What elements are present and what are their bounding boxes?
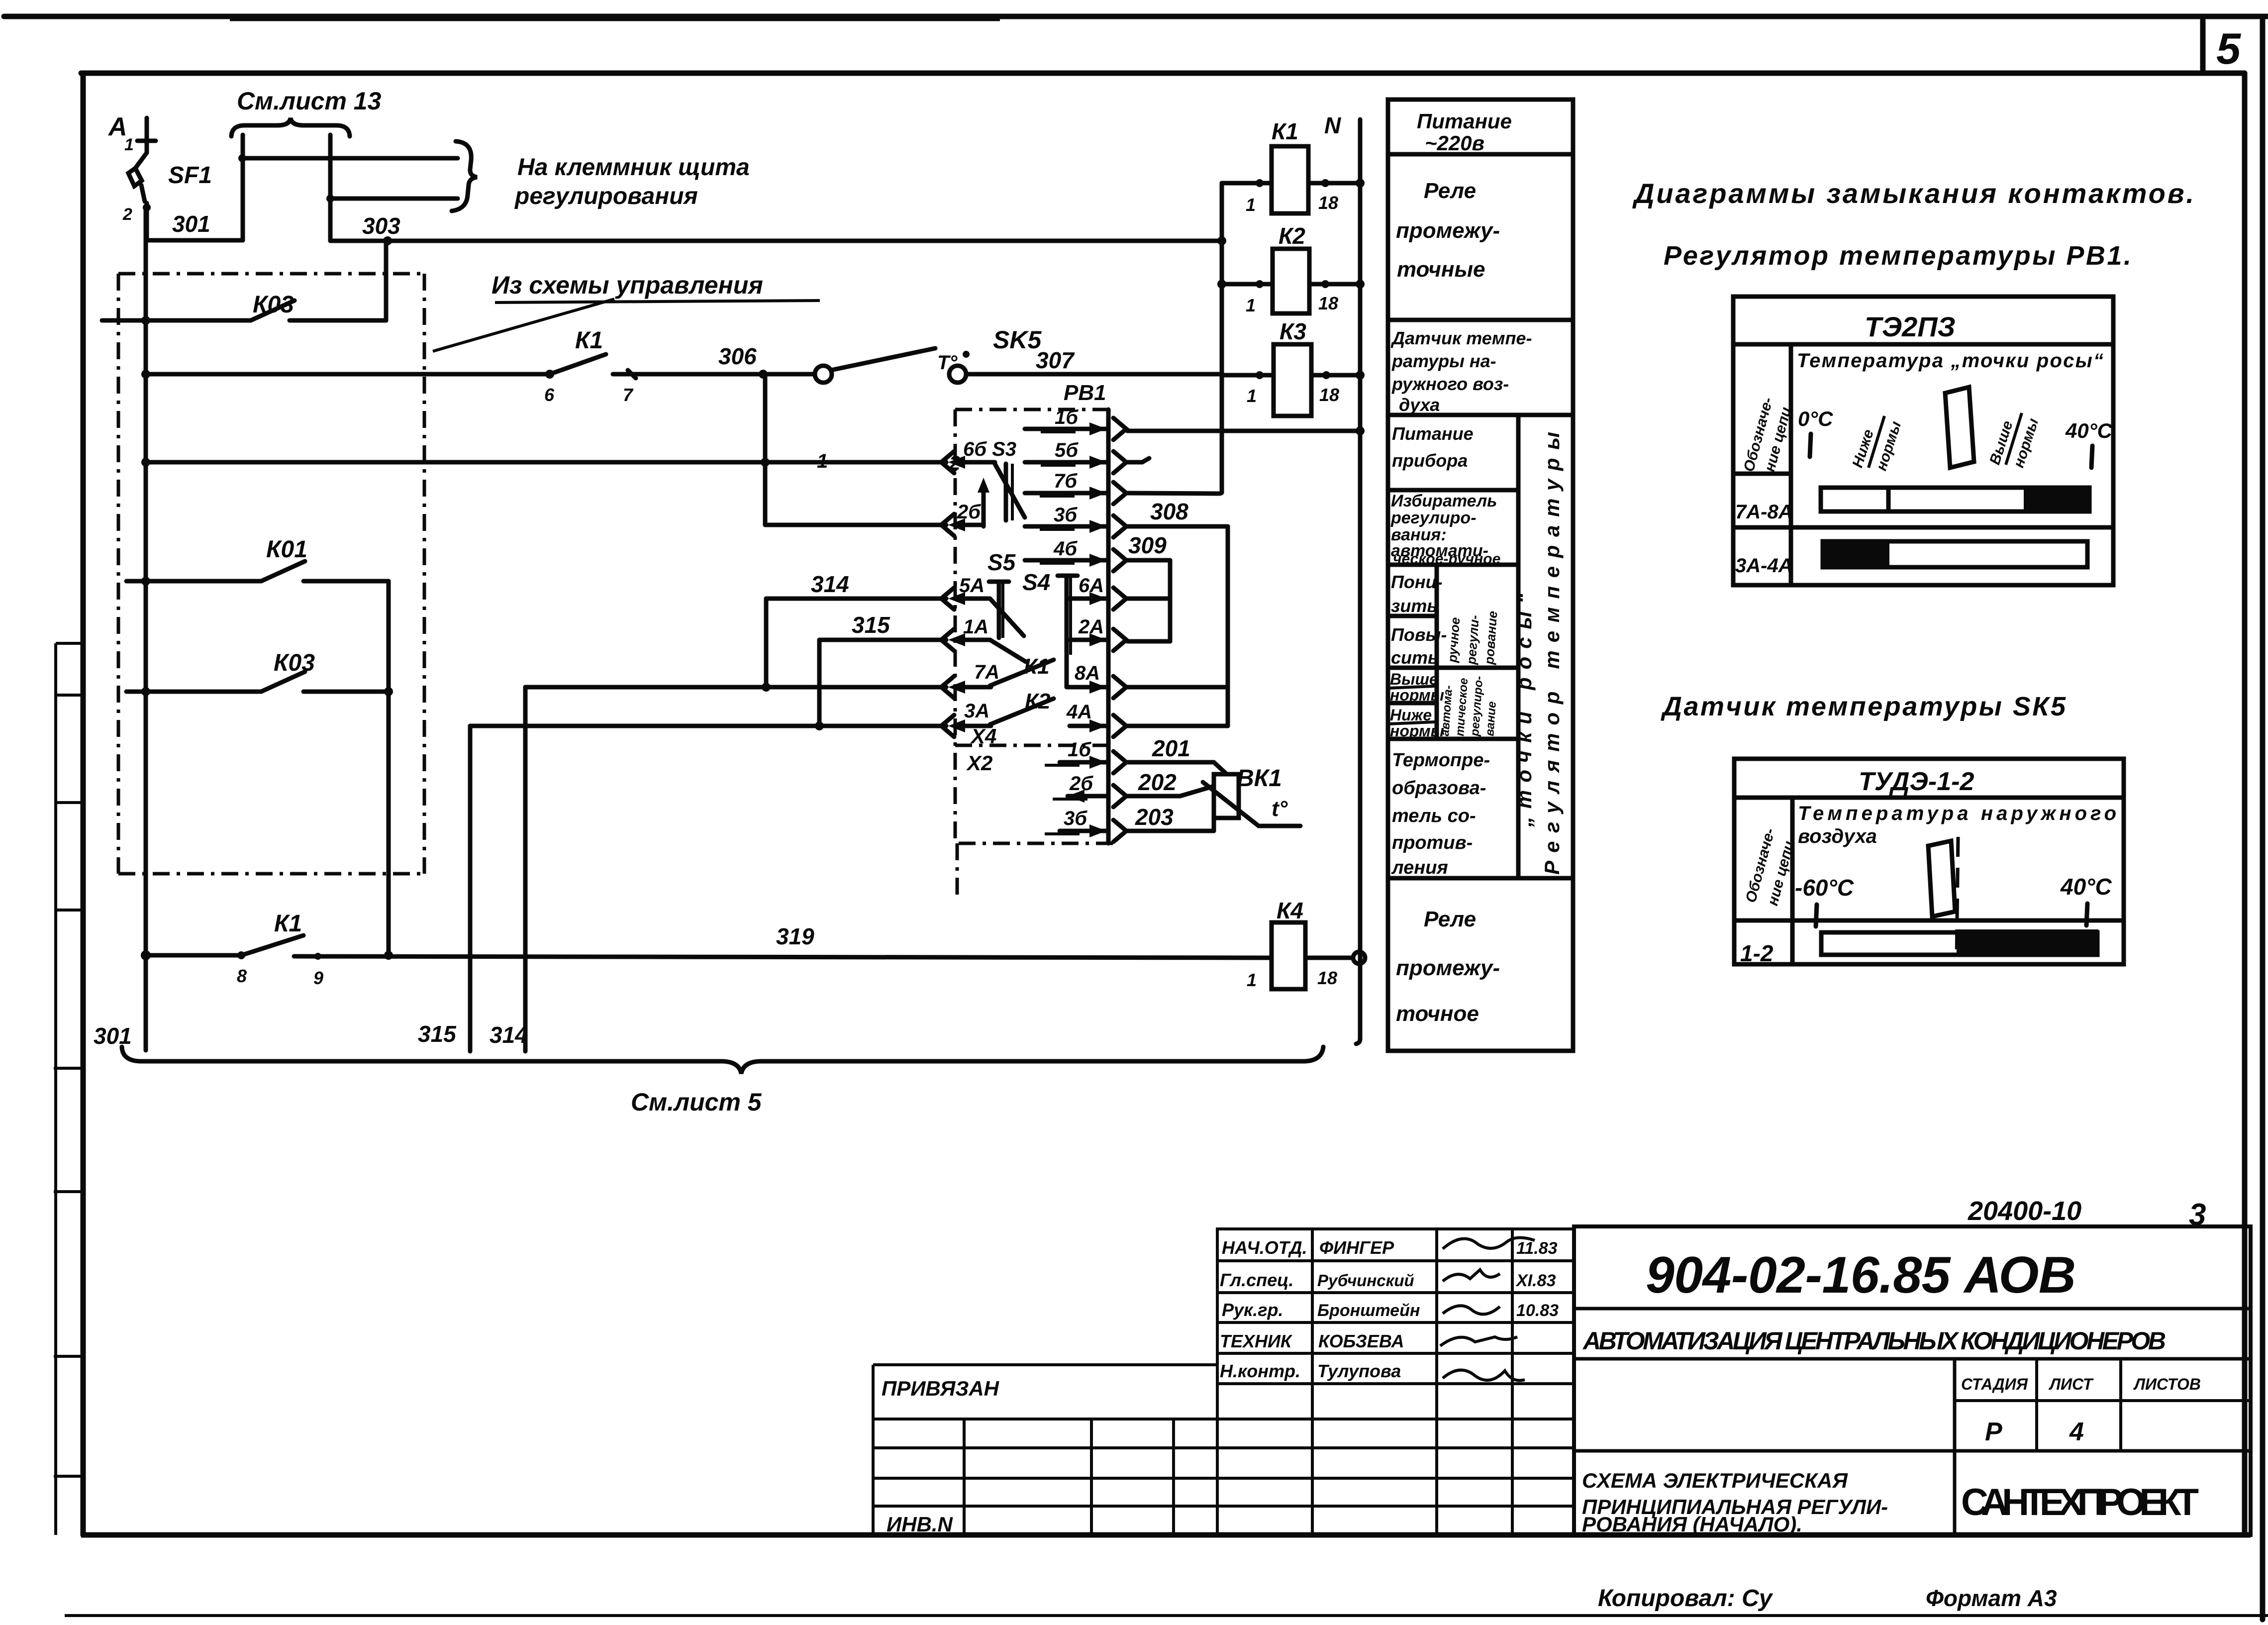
svg-text:309: 309	[1128, 532, 1167, 558]
title block main box	[1574, 1226, 2251, 1535]
svg-text:Датчик темпе-: Датчик темпе-	[1390, 328, 1532, 348]
thermal resistor BK1	[1203, 765, 1300, 826]
contact K01	[126, 536, 389, 586]
pin 4A out arrow	[1066, 701, 1126, 737]
svg-text:КОБЗЕВА: КОБЗЕВА	[1318, 1331, 1404, 1351]
svg-text:К1: К1	[1272, 118, 1298, 144]
svg-text:Пони-: Пони-	[1391, 572, 1443, 592]
svg-text:нормы: нормы	[1390, 686, 1444, 704]
svg-text:Х2: Х2	[966, 751, 992, 775]
svg-text:18: 18	[1318, 193, 1338, 213]
svg-text:301: 301	[94, 1023, 132, 1049]
wire K03 to 303	[384, 241, 389, 320]
svg-text:ПРИВЯЗАН: ПРИВЯЗАН	[882, 1377, 1000, 1400]
wire below SF1	[145, 203, 149, 240]
svg-text:2А: 2А	[1078, 616, 1104, 638]
svg-text:1б: 1б	[1055, 406, 1079, 428]
svg-text:Из схемы управления: Из схемы управления	[492, 271, 763, 299]
title block signature table	[1217, 1229, 1574, 1535]
cell pitanie 220	[1417, 109, 1512, 155]
pin 1b out arrow	[1025, 406, 1126, 440]
wire 202	[1127, 769, 1214, 796]
svg-text:ТЕХНИК: ТЕХНИК	[1220, 1331, 1293, 1351]
pin 3b out arrow	[1025, 504, 1126, 537]
svg-text:18: 18	[1319, 385, 1339, 405]
brace Sm.list 5	[122, 1047, 1323, 1074]
contact K03 upper	[102, 292, 386, 325]
pin 7A in arrow	[941, 661, 999, 698]
wire 309 loop	[1127, 532, 1170, 641]
svg-text:ческое-ручное: ческое-ручное	[1393, 551, 1500, 567]
svg-text:Бронштейн: Бронштейн	[1317, 1301, 1420, 1320]
svg-text:сить: сить	[1391, 647, 1438, 668]
cell termopreobrazovatel	[1391, 750, 1490, 878]
svg-text:К4: К4	[1277, 898, 1303, 923]
svg-text:314: 314	[811, 571, 849, 597]
scale -60C	[1795, 875, 1854, 926]
signature table texts	[1220, 1237, 1559, 1381]
svg-text:Питание: Питание	[1392, 423, 1474, 444]
svg-text:t°: t°	[1272, 797, 1288, 821]
svg-text:К03: К03	[274, 650, 315, 676]
wire 3A row	[470, 724, 946, 728]
svg-text:S5: S5	[987, 549, 1016, 575]
svg-text:ЛИСТОВ: ЛИСТОВ	[2133, 1375, 2201, 1393]
svg-text:Т°: Т°	[937, 352, 958, 374]
privyazan table	[873, 1365, 1217, 1535]
svg-text:ФИНГЕР: ФИНГЕР	[1319, 1237, 1394, 1258]
svg-text:вание: вание	[1483, 701, 1499, 737]
svg-text:XI.83: XI.83	[1515, 1271, 1556, 1290]
wire 315 branch 1A	[815, 612, 946, 730]
cell povysit	[1391, 624, 1447, 668]
svg-text:9: 9	[313, 968, 323, 988]
svg-text:ЛИСТ: ЛИСТ	[2049, 1375, 2094, 1393]
svg-text:1б: 1б	[1068, 739, 1091, 761]
svg-text:Избиратель: Избиратель	[1391, 492, 1497, 510]
cell pitanie pribora	[1392, 423, 1474, 471]
wire 301 horizontal	[147, 238, 243, 243]
wire 7A row	[525, 685, 946, 690]
svg-text:3А: 3А	[964, 700, 989, 722]
svg-text:Регулятор температуры РВ1.: Регулятор температуры РВ1.	[1664, 241, 2131, 271]
svg-text:Повы-: Повы-	[1391, 624, 1447, 645]
scale 40C	[2065, 419, 2113, 468]
svg-text:S4: S4	[1022, 569, 1050, 595]
rail from 303 to relays	[1127, 183, 1226, 494]
middle table grid	[1388, 100, 1573, 1051]
svg-text:303: 303	[362, 213, 400, 239]
svg-text:К01: К01	[266, 536, 307, 563]
switch S3 blade	[994, 462, 1025, 520]
svg-text:СХЕМА ЭЛЕКТРИЧЕСКАЯ: СХЕМА ЭЛЕКТРИЧЕСКАЯ	[1582, 1469, 1848, 1492]
svg-text:регулирования: регулирования	[514, 183, 698, 209]
cell nizhe normy	[1389, 706, 1444, 740]
wire 203	[1127, 804, 1214, 831]
svg-text:ления: ления	[1391, 857, 1448, 878]
brace Sm.list 13	[231, 118, 350, 136]
node junction on drop left	[238, 154, 246, 162]
svg-text:8А: 8А	[1075, 662, 1100, 684]
pin 2b lower in arrow	[1053, 773, 1126, 807]
dashed setpoint line	[1957, 837, 1958, 960]
svg-text:К03: К03	[253, 292, 294, 318]
dash-dot boundary iz shemy upravleniya	[118, 274, 424, 874]
svg-text:1: 1	[1247, 970, 1257, 990]
relay K2	[1222, 223, 1365, 315]
pin 1b lower out arrow	[1045, 739, 1126, 773]
svg-text:~220в: ~220в	[1425, 131, 1484, 155]
svg-text:5б: 5б	[1055, 439, 1079, 461]
wire K01 corner down	[387, 581, 391, 955]
svg-text:18: 18	[1317, 968, 1337, 988]
svg-text:против-: против-	[1392, 832, 1473, 853]
svg-text:2: 2	[122, 205, 132, 224]
svg-text:К1: К1	[575, 327, 603, 354]
switch S4	[1022, 569, 1078, 655]
page bottom line	[65, 1614, 2268, 1617]
pin 8A out arrow	[1067, 655, 1126, 698]
svg-text:ТУДЭ-1-2: ТУДЭ-1-2	[1859, 767, 1974, 796]
temperatura naruzhnogo	[1798, 803, 2116, 847]
contact K03 lower	[126, 650, 393, 696]
pin 7b out arrow	[1025, 470, 1126, 504]
wire 2b row	[765, 523, 946, 527]
svg-text:319: 319	[776, 923, 814, 949]
svg-text:N: N	[1324, 112, 1341, 138]
svg-text:6: 6	[544, 385, 555, 405]
svg-text:РВ1: РВ1	[1064, 381, 1106, 405]
svg-text:тель со-: тель со-	[1392, 806, 1476, 826]
rotated nizhe normy	[1849, 416, 1904, 473]
svg-text:7: 7	[623, 385, 634, 405]
wire 314 branch 5A	[762, 571, 946, 692]
breaker SF1	[122, 135, 212, 224]
page top border line	[4, 16, 2268, 18]
svg-text:40°С: 40°С	[2065, 419, 2113, 442]
svg-text:Питание: Питание	[1417, 109, 1512, 133]
scale 0C	[1798, 407, 1833, 457]
pin 1A in arrow	[941, 616, 1026, 662]
contact K1 bottom row 8-9	[141, 911, 393, 988]
svg-text:ИНВ.N: ИНВ.N	[887, 1513, 954, 1536]
relay K4	[1247, 898, 1365, 990]
svg-text:1: 1	[1246, 295, 1256, 315]
svg-text:18: 18	[1318, 293, 1338, 313]
svg-text:ручное: ручное	[1445, 617, 1463, 664]
svg-text:7А-8А: 7А-8А	[1735, 501, 1793, 523]
rotated avtomaticheskoe regulirovanie	[1438, 676, 1499, 737]
wire 6b long row	[141, 458, 946, 467]
wire 319 long	[294, 956, 1272, 958]
svg-text:Температура наружного: Температура наружного	[1798, 803, 2116, 824]
svg-text:Копировал: Су: Копировал: Су	[1598, 1585, 1774, 1612]
wire 201	[1127, 735, 1227, 774]
pin 6A out arrow	[1070, 575, 1126, 609]
pin 2b arrow with up arrow	[941, 478, 989, 536]
pin 5b out arrow	[1025, 439, 1126, 473]
svg-text:202: 202	[1138, 769, 1177, 795]
svg-text:Рук.гр.: Рук.гр.	[1222, 1300, 1283, 1320]
setpoint parallelogram	[1945, 387, 1974, 468]
svg-text:К1: К1	[274, 911, 302, 937]
svg-text:Формат А3: Формат А3	[1926, 1585, 2057, 1611]
svg-text:6А: 6А	[1079, 575, 1104, 597]
contact K1 inside PB1	[990, 654, 1054, 686]
row 1-2	[1740, 929, 2098, 966]
scale 40C 2	[2060, 874, 2112, 925]
sheet title	[1582, 1469, 1888, 1536]
svg-text:Реле: Реле	[1424, 907, 1476, 931]
signatures squiggles	[1440, 1237, 1535, 1380]
svg-text:4А: 4А	[1066, 701, 1092, 723]
svg-text:Р: Р	[1985, 1418, 2002, 1446]
svg-text:Рубчинский: Рубчинский	[1317, 1271, 1414, 1290]
PB1 block outline	[955, 409, 1115, 897]
svg-text:5А: 5А	[959, 575, 985, 597]
svg-text:Реле: Реле	[1424, 179, 1476, 203]
wire 314 vertical	[523, 687, 528, 1051]
switch S5	[987, 549, 1016, 638]
svg-text:СТАДИЯ: СТАДИЯ	[1961, 1375, 2028, 1393]
rotated ruchnoe regulirovanie	[1445, 610, 1500, 665]
wire 308 loop	[1127, 499, 1228, 726]
svg-text:Тулупова: Тулупова	[1317, 1361, 1401, 1381]
wire 1b to N rail	[1127, 426, 1365, 435]
svg-text:1: 1	[124, 135, 134, 154]
svg-text:зить: зить	[1391, 596, 1438, 616]
svg-text:3б: 3б	[1054, 504, 1078, 526]
rotated oboznachenie tsepi 2	[1743, 826, 1797, 908]
svg-text:НАЧ.ОТД.: НАЧ.ОТД.	[1222, 1237, 1307, 1258]
cell datchik temperatury	[1390, 328, 1532, 415]
svg-text:САНТЕХПРОЕКТ: САНТЕХПРОЕКТ	[1961, 1481, 2199, 1523]
svg-text:точное: точное	[1396, 1002, 1479, 1026]
cell rele promezhutochnoe	[1396, 907, 1500, 1026]
svg-text:0°С: 0°С	[1798, 407, 1833, 430]
cell rele promezhutochnye	[1396, 179, 1500, 282]
thermostat SK5	[763, 326, 1042, 474]
wire SK5 to S3 vertical	[763, 374, 768, 525]
node 303 junction	[383, 236, 392, 245]
svg-text:нормы: нормы	[1390, 722, 1444, 740]
svg-text:3б: 3б	[1064, 808, 1087, 829]
relay K3	[1222, 318, 1365, 416]
svg-text:4б: 4б	[1053, 538, 1078, 560]
svg-text:5: 5	[2216, 24, 2241, 73]
svg-text:Термопре-: Термопре-	[1392, 750, 1490, 771]
svg-text:10.83: 10.83	[1516, 1301, 1559, 1320]
svg-text:20400-10: 20400-10	[1968, 1196, 2081, 1226]
svg-text:образова-: образова-	[1392, 778, 1486, 799]
svg-text:315: 315	[418, 1021, 457, 1047]
cell vyshe normy	[1389, 670, 1444, 704]
wire 303 horizontal	[330, 239, 1222, 243]
svg-text:АВТОМАТИЗАЦИЯ ЦЕНТРАЛЬНЫХ КОНД: АВТОМАТИЗАЦИЯ ЦЕНТРАЛЬНЫХ КОНДИЦИОНЕРОВ	[1582, 1327, 2166, 1355]
svg-text:ратуры на-: ратуры на-	[1391, 351, 1496, 371]
svg-text:Диаграммы замыкания контакто: Диаграммы замыкания контактов.	[1632, 178, 2194, 209]
stadia list listov	[1961, 1375, 2201, 1446]
pin 3A in arrow	[941, 700, 991, 737]
wire 5b stub	[1127, 458, 1149, 462]
svg-text:SK5: SK5	[993, 326, 1042, 354]
svg-text:1А: 1А	[963, 616, 988, 638]
svg-text:1: 1	[1247, 386, 1257, 406]
svg-text:2б: 2б	[1069, 773, 1093, 795]
svg-text:11.83: 11.83	[1516, 1239, 1558, 1258]
rail N vertical	[1356, 119, 1360, 1044]
svg-text:8: 8	[237, 966, 247, 986]
svg-text:306: 306	[718, 343, 757, 369]
svg-text:3: 3	[2189, 1198, 2206, 1232]
TUDE table grid	[1734, 759, 2124, 964]
wire to terminal strip upper	[242, 156, 458, 161]
row 3A-4A	[1735, 539, 2087, 577]
setpoint parallelogram 2	[1928, 841, 1955, 916]
svg-text:духа: духа	[1399, 395, 1440, 415]
wire to terminal strip lower	[330, 197, 458, 201]
svg-text:промежу-: промежу-	[1396, 956, 1500, 980]
cell ponizit	[1391, 572, 1443, 616]
node 2 junction	[143, 203, 151, 211]
svg-text:315: 315	[852, 612, 890, 638]
svg-text:См.лист 5: См.лист 5	[631, 1088, 762, 1116]
pin 3b lower out arrow	[1045, 808, 1126, 842]
TE2P3 table grid	[1733, 297, 2113, 585]
wire 307	[966, 372, 1222, 377]
svg-text:точные: точные	[1397, 257, 1485, 282]
svg-text:301: 301	[172, 211, 210, 237]
svg-text:SF1: SF1	[168, 162, 212, 189]
svg-text:308: 308	[1150, 499, 1188, 524]
wire 315 vertical	[468, 726, 473, 1051]
row 7A-8A	[1735, 486, 2090, 523]
svg-text:201: 201	[1152, 735, 1190, 761]
svg-text:40°С: 40°С	[2060, 874, 2112, 900]
cell izbiratel	[1390, 492, 1500, 567]
svg-text:воздуха: воздуха	[1798, 825, 1877, 847]
left rail 301 vertical	[144, 207, 148, 1050]
svg-text:314: 314	[490, 1022, 528, 1048]
label iz shemy upravleniya	[433, 271, 820, 351]
svg-text:307: 307	[1036, 347, 1075, 373]
svg-text:7б: 7б	[1054, 470, 1078, 492]
svg-text:ружного воз-: ружного воз-	[1391, 374, 1509, 394]
svg-text:Н.контр.: Н.контр.	[1220, 1361, 1300, 1381]
svg-text:ТЭ2ПЗ: ТЭ2ПЗ	[1865, 311, 1956, 342]
svg-text:203: 203	[1135, 804, 1174, 830]
svg-text:ВК1: ВК1	[1237, 765, 1282, 792]
PB1 right edge	[1106, 409, 1111, 843]
svg-text:4: 4	[2069, 1418, 2084, 1446]
svg-text:РОВАНИЯ (НАЧАЛО).: РОВАНИЯ (НАЧАЛО).	[1582, 1513, 1802, 1536]
pin 5A in arrow	[941, 575, 1024, 636]
rotated oboznachenie tsepi	[1741, 396, 1794, 474]
svg-text:1-2: 1-2	[1740, 940, 1774, 966]
svg-text:К2: К2	[1279, 223, 1305, 249]
svg-text:3А-4А: 3А-4А	[1735, 555, 1793, 577]
svg-text:промежу-: промежу-	[1396, 218, 1500, 243]
sheet number box 5 top right	[2203, 16, 2241, 73]
rotated vyshe normy	[1986, 413, 2042, 470]
pin 2A out arrow	[1067, 616, 1126, 655]
svg-text:К3: К3	[1280, 318, 1306, 344]
svg-text:На клеммник щита: На клеммник щита	[517, 154, 750, 181]
relay K1	[1222, 118, 1365, 215]
node SK5 branch	[759, 370, 768, 379]
pin 6b in arrow	[941, 438, 1016, 473]
contact K1 on wire 306	[141, 327, 763, 405]
svg-text:См.лист 13: См.лист 13	[237, 87, 382, 115]
svg-text:прибора: прибора	[1392, 450, 1468, 471]
svg-text:Датчик температуры SК5: Датчик температуры SК5	[1661, 692, 2066, 721]
wire brace drop right	[328, 135, 333, 241]
wire to SF1	[145, 118, 149, 153]
svg-text:904-02-16.85 АОВ: 904-02-16.85 АОВ	[1646, 1246, 2076, 1304]
rotated regulyator temperatury	[1512, 432, 1564, 875]
contact K2 inside PB1	[990, 689, 1054, 724]
svg-text:2б: 2б	[957, 501, 981, 523]
brace to terminal strip	[452, 141, 477, 211]
svg-text:6б S3: 6б S3	[963, 438, 1016, 460]
wire brace drop left	[241, 135, 245, 240]
svg-text:7А: 7А	[974, 661, 999, 683]
svg-text:регулиро-: регулиро-	[1390, 508, 1477, 527]
svg-text:1: 1	[1246, 195, 1256, 215]
node junction on drop right	[326, 195, 334, 203]
left fold marks	[54, 643, 83, 1535]
svg-text:Гл.спец.: Гл.спец.	[1220, 1270, 1293, 1290]
svg-text:-60°С: -60°С	[1795, 875, 1854, 901]
pin 4b out arrow	[1025, 538, 1126, 571]
